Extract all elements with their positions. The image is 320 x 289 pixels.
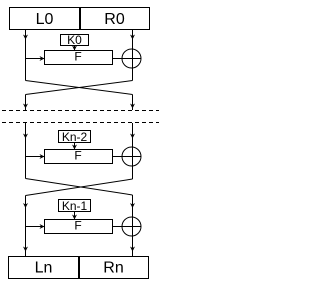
arrowhead branch into F1 <box>40 56 45 61</box>
arrowhead left into dashed break <box>23 104 28 109</box>
arrowhead Kn-1 into F3 <box>72 215 77 220</box>
wire: crossing 1 right-to-left diagonal <box>26 81 133 95</box>
wire: crossing 2 left-to-right diagonal <box>26 179 133 196</box>
key box Kn-1 <box>59 200 91 212</box>
arrowhead right into output box <box>130 247 135 252</box>
arrowhead K0 into F1 <box>72 46 77 51</box>
wire: F2 output to XOR 2 <box>113 156 142 158</box>
svg-text:Kn-1: Kn-1 <box>62 199 88 213</box>
wire: branch into F1 <box>26 58 45 60</box>
wire: K0 to F1 <box>74 46 76 51</box>
wire: left resume to crossing 2 <box>25 123 27 179</box>
divider of output register <box>78 257 80 279</box>
arrowhead branch into F3 <box>40 224 45 229</box>
wire: branch into F3 <box>26 226 45 228</box>
key box Kn-2 <box>59 131 91 143</box>
key box K0 <box>61 35 89 46</box>
wire: R0 down through XOR 1 <box>132 30 134 81</box>
wire: left down to dashed break <box>25 95 27 111</box>
arrowhead below R0 <box>130 35 135 40</box>
XOR node 3 <box>122 217 141 236</box>
wire: Kn-1 to F3 <box>74 212 76 220</box>
arrowhead left below dashed break <box>23 134 28 139</box>
arrowhead right into dashed break <box>130 104 135 109</box>
wire: branch into F2 <box>26 156 45 158</box>
arrowhead Kn-2 into F2 <box>72 145 77 150</box>
XOR node 2 <box>122 147 141 166</box>
svg-text:F: F <box>74 50 81 64</box>
XOR node 1 <box>122 49 141 68</box>
svg-text:F: F <box>74 149 81 163</box>
svg-text:R0: R0 <box>104 11 125 28</box>
wire: crossing 2 right-to-left diagonal <box>26 179 133 196</box>
wire: F3 output to XOR 3 <box>113 226 142 228</box>
arrowhead left into output box <box>23 247 28 252</box>
wire: left down to output box <box>25 196 27 257</box>
arrowhead right below crossing 2 <box>130 203 135 208</box>
svg-text:K0: K0 <box>67 33 82 47</box>
svg-text:Ln: Ln <box>35 260 53 277</box>
dashed break line upper <box>2 110 159 112</box>
arrowhead below L0 <box>23 35 28 40</box>
output register box Ln|Rn <box>9 257 149 279</box>
wire: L0 down to crossing 1 <box>25 30 27 81</box>
svg-text:Kn-2: Kn-2 <box>62 130 88 144</box>
wire: F1 output to XOR 1 <box>113 58 142 60</box>
arrowhead branch into F2 <box>40 154 45 159</box>
svg-text:L0: L0 <box>36 11 54 28</box>
wire: right down to dashed break <box>132 95 134 111</box>
svg-text:F: F <box>74 219 81 233</box>
wire: right resume through XOR 2 <box>132 123 134 179</box>
wire: right down through XOR 3 to output box <box>132 195 134 256</box>
arrowhead left below crossing 2 <box>23 203 28 208</box>
F box round 3 <box>45 220 113 234</box>
input register box L0|R0 <box>10 8 150 30</box>
F box round 1 <box>45 51 113 65</box>
F box round 2 <box>45 150 113 164</box>
svg-text:Rn: Rn <box>103 260 123 277</box>
wire: Kn-2 to F2 <box>74 143 76 150</box>
divider of input register <box>79 8 81 30</box>
wire: crossing 1 left-to-right diagonal <box>26 81 133 95</box>
dashed break line lower <box>2 122 159 124</box>
arrowhead right below dashed break <box>130 134 135 139</box>
